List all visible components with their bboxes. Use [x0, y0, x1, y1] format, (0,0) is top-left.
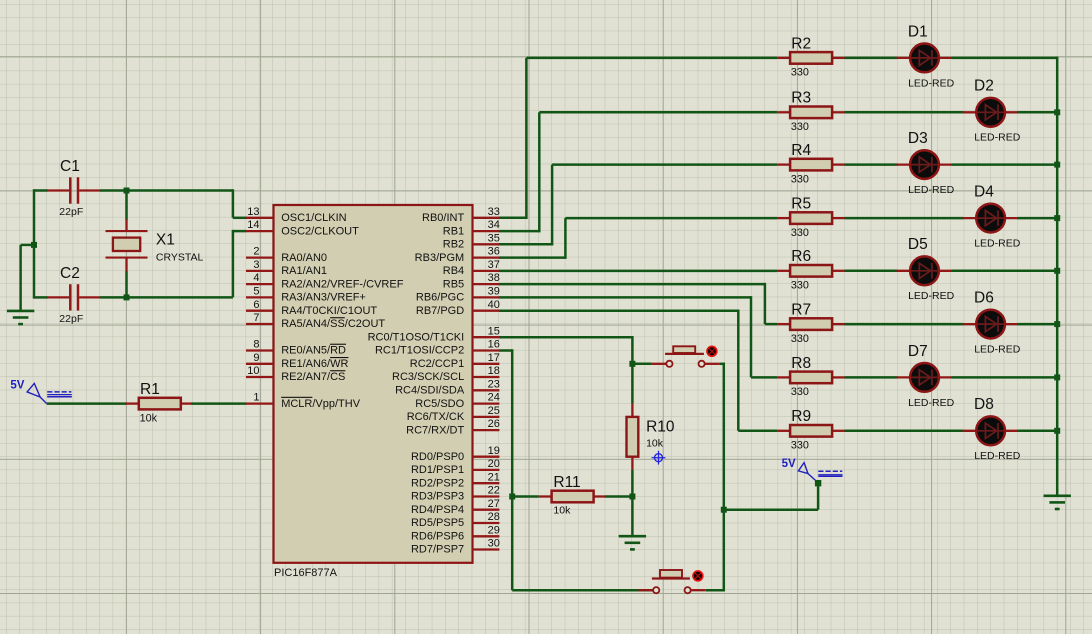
crystal X1: [106, 219, 204, 271]
pin 16 stub: [473, 349, 500, 351]
svg-text:5V: 5V: [10, 379, 24, 391]
svg-text:LED-RED: LED-RED: [974, 450, 1021, 462]
svg-text:RC3/SCK/SCL: RC3/SCK/SCL: [392, 371, 464, 383]
svg-text:RE1/AN6/WR: RE1/AN6/WR: [281, 358, 348, 370]
svg-text:LED-RED: LED-RED: [908, 290, 955, 302]
pin 28 stub: [473, 522, 500, 524]
svg-text:27: 27: [488, 498, 500, 510]
wire 5V right to button branch: [724, 483, 818, 510]
wire 5V to R1: [47, 402, 127, 405]
svg-text:10k: 10k: [646, 437, 664, 449]
svg-text:RA2/AN2/VREF-/CVREF: RA2/AN2/VREF-/CVREF: [281, 278, 404, 290]
junction R10-R11: [629, 494, 635, 500]
svg-text:LED-RED: LED-RED: [908, 184, 955, 196]
pin 38 stub: [473, 283, 500, 285]
pin 1 stub: [246, 402, 274, 404]
wire R2 to D1: [845, 57, 898, 60]
pin 20 stub: [473, 469, 500, 471]
svg-text:D6: D6: [974, 290, 994, 307]
svg-text:R4: R4: [791, 142, 811, 159]
resistor R7: [777, 302, 845, 345]
resistor R9: [777, 408, 845, 451]
svg-text:RE0/AN5/RD: RE0/AN5/RD: [281, 345, 346, 357]
ground (right rail): [1044, 496, 1071, 509]
svg-text:RB3/PGM: RB3/PGM: [415, 252, 465, 264]
pin 25 stub: [473, 416, 500, 418]
resistor R2: [777, 35, 845, 78]
svg-text:RA5/AN4/SS/C2OUT: RA5/AN4/SS/C2OUT: [281, 318, 385, 330]
push button S1: [652, 346, 720, 367]
svg-text:1: 1: [253, 392, 259, 404]
push button S2: [638, 570, 705, 593]
svg-text:C1: C1: [60, 158, 80, 175]
svg-text:10k: 10k: [140, 412, 158, 424]
svg-text:RB4: RB4: [443, 265, 464, 277]
pin 29 stub: [473, 535, 500, 537]
svg-text:4: 4: [253, 272, 259, 284]
svg-text:8: 8: [253, 339, 259, 351]
svg-text:330: 330: [791, 121, 809, 133]
resistor R1: [126, 381, 194, 424]
svg-text:RB7/PGD: RB7/PGD: [416, 305, 464, 317]
pin 6 stub: [246, 310, 274, 312]
pin 5 stub: [246, 296, 274, 298]
svg-text:16: 16: [488, 339, 500, 351]
svg-text:18: 18: [488, 365, 500, 377]
wire RB0 to R2: [499, 58, 777, 219]
junction rail row 3: [1054, 162, 1060, 168]
svg-text:330: 330: [791, 333, 809, 345]
junction rail row 2: [1054, 109, 1060, 115]
wire R4 to D3: [845, 163, 898, 166]
svg-text:RC2/CCP1: RC2/CCP1: [410, 358, 464, 370]
junction 5V branch: [721, 507, 727, 513]
svg-text:D3: D3: [908, 130, 928, 147]
svg-text:17: 17: [488, 352, 500, 364]
svg-text:330: 330: [791, 386, 809, 398]
svg-text:R7: R7: [791, 302, 811, 319]
svg-text:39: 39: [488, 286, 500, 298]
svg-text:40: 40: [488, 299, 500, 311]
microcontroller U1 label: [274, 567, 338, 579]
svg-text:D8: D8: [974, 396, 994, 413]
pin 39 stub: [473, 296, 500, 298]
svg-text:5: 5: [253, 286, 259, 298]
svg-text:R6: R6: [791, 248, 811, 265]
svg-text:RC4/SDI/SDA: RC4/SDI/SDA: [395, 385, 465, 397]
svg-text:X1: X1: [156, 231, 175, 248]
svg-text:RA3/AN3/VREF+: RA3/AN3/VREF+: [281, 292, 366, 304]
svg-text:RB1: RB1: [443, 225, 464, 237]
wire S2 to right vertical: [706, 589, 725, 592]
svg-text:330: 330: [791, 67, 809, 79]
svg-text:25: 25: [488, 405, 500, 417]
junction left vertical: [31, 242, 37, 248]
wire RC1 down: [499, 349, 512, 590]
svg-text:330: 330: [791, 227, 809, 239]
svg-text:7: 7: [253, 312, 259, 324]
svg-text:33: 33: [488, 206, 500, 218]
resistor R5: [777, 196, 845, 239]
svg-text:36: 36: [488, 246, 500, 258]
pin 30 stub: [473, 548, 500, 550]
svg-text:C2: C2: [60, 265, 80, 282]
svg-text:29: 29: [488, 524, 500, 536]
svg-text:OSC1/CLKIN: OSC1/CLKIN: [281, 212, 346, 224]
svg-text:D5: D5: [908, 236, 928, 253]
pin 3 stub: [246, 270, 274, 272]
pin 33 stub: [473, 217, 500, 219]
svg-text:RD7/PSP7: RD7/PSP7: [411, 544, 464, 556]
wire crystal top: [125, 191, 128, 220]
LED D7: [897, 343, 955, 409]
wire ground branch: [21, 245, 34, 311]
wire R10 to ground: [631, 470, 634, 536]
wire OSC2 net (C2 bottom rail): [34, 230, 247, 298]
wire D4 to rail: [1018, 217, 1058, 220]
svg-text:RA1/AN1: RA1/AN1: [281, 265, 327, 277]
svg-text:RA4/T0CKI/C1OUT: RA4/T0CKI/C1OUT: [281, 305, 377, 317]
wire RB6 to R8: [499, 296, 777, 377]
wire D8 to rail: [1018, 430, 1058, 433]
pin 36 stub: [473, 256, 500, 258]
svg-text:R3: R3: [791, 90, 811, 107]
pin 9 stub: [246, 363, 274, 365]
svg-text:D7: D7: [908, 343, 928, 360]
pin 35 stub: [473, 243, 500, 245]
svg-text:RA0/AN0: RA0/AN0: [281, 252, 327, 264]
svg-text:R10: R10: [646, 419, 675, 436]
svg-text:LED-RED: LED-RED: [974, 238, 1021, 250]
svg-text:14: 14: [247, 219, 259, 231]
pin 22 stub: [473, 495, 500, 497]
LED D5: [897, 236, 955, 302]
svg-text:22pF: 22pF: [59, 313, 83, 325]
capacitor C1: [47, 158, 100, 218]
resistor R4: [777, 142, 845, 185]
svg-text:2: 2: [253, 246, 259, 258]
junction rail row 8: [1054, 428, 1060, 434]
resistor R11: [514, 474, 630, 517]
pin 15 stub: [473, 336, 500, 338]
svg-text:D4: D4: [974, 184, 994, 201]
svg-text:24: 24: [488, 392, 500, 404]
pin 40 stub: [473, 310, 500, 312]
wire OSC1 net (C1 top rail): [34, 189, 247, 218]
svg-text:26: 26: [488, 418, 500, 430]
svg-text:19: 19: [488, 445, 500, 457]
wire R1 to MCLR: [191, 402, 246, 405]
wire RB7 to R9: [499, 309, 777, 430]
pin 21 stub: [473, 482, 500, 484]
wire left vertical (C1-C2): [33, 189, 36, 298]
wire D6 to rail: [1018, 323, 1058, 326]
wire R9 to D8: [845, 430, 964, 433]
wire R3 to D2: [845, 111, 964, 114]
svg-text:RD1/PSP1: RD1/PSP1: [411, 464, 464, 476]
svg-text:R1: R1: [140, 381, 160, 398]
svg-text:RC5/SDO: RC5/SDO: [415, 398, 464, 410]
svg-text:RD0/PSP0: RD0/PSP0: [411, 451, 464, 463]
pin 10 stub: [246, 376, 274, 378]
svg-text:15: 15: [488, 325, 500, 337]
svg-text:21: 21: [488, 471, 500, 483]
wire D5 to rail: [952, 270, 1058, 273]
svg-text:5V: 5V: [782, 458, 796, 470]
LED D3: [897, 130, 955, 196]
svg-text:35: 35: [488, 232, 500, 244]
svg-text:RB2: RB2: [443, 239, 464, 251]
junction button1 branch: [629, 361, 635, 367]
junction rail row 7: [1054, 374, 1060, 380]
svg-text:RC0/T1OSO/T1CKI: RC0/T1OSO/T1CKI: [368, 331, 465, 343]
wire RB2 to R4: [499, 165, 777, 246]
svg-text:RE2/AN7/CS: RE2/AN7/CS: [281, 371, 345, 383]
svg-text:RB5: RB5: [443, 278, 464, 290]
svg-text:330: 330: [791, 440, 809, 452]
wire R8 to D7: [845, 376, 898, 379]
pin 2 stub: [246, 256, 274, 258]
microcontroller U1 body: [274, 205, 473, 563]
power terminal 5V (right): [782, 458, 843, 486]
LED D6: [963, 290, 1021, 356]
power terminal 5V (left): [10, 379, 71, 403]
wire D1 to rail: [952, 57, 1058, 60]
junction rail row 4: [1054, 215, 1060, 221]
wire R7 to D6: [845, 323, 964, 326]
wire D7 to rail: [952, 376, 1058, 379]
svg-text:RB6/PGC: RB6/PGC: [416, 292, 464, 304]
svg-text:CRYSTAL: CRYSTAL: [156, 252, 204, 264]
svg-text:D1: D1: [908, 23, 928, 40]
wire D3 to rail: [952, 163, 1058, 166]
svg-text:R9: R9: [791, 408, 811, 425]
pin 19 stub: [473, 456, 500, 458]
LED D2: [963, 78, 1021, 144]
svg-text:LED-RED: LED-RED: [974, 344, 1021, 356]
svg-text:10k: 10k: [553, 505, 571, 517]
svg-text:MCLR/Vpp/THV: MCLR/Vpp/THV: [281, 398, 361, 410]
svg-text:RB0/INT: RB0/INT: [422, 212, 464, 224]
svg-text:34: 34: [488, 219, 500, 231]
junction rail row 6: [1054, 321, 1060, 327]
pin 37 stub: [473, 270, 500, 272]
svg-text:RD6/PSP6: RD6/PSP6: [411, 531, 464, 543]
ground (middle): [619, 536, 646, 549]
pin 4 stub: [246, 283, 274, 285]
wire RB5 to R7: [499, 283, 777, 324]
wire crystal bottom: [125, 271, 128, 297]
svg-text:PIC16F877A: PIC16F877A: [274, 567, 338, 579]
origin marker: [652, 451, 666, 465]
resistor R6: [777, 248, 845, 291]
wire RC0 to R10 top: [499, 336, 632, 404]
svg-text:R8: R8: [791, 355, 811, 372]
svg-text:330: 330: [791, 280, 809, 292]
svg-text:RD5/PSP5: RD5/PSP5: [411, 517, 464, 529]
svg-text:3: 3: [253, 259, 259, 271]
svg-text:37: 37: [488, 259, 500, 271]
wire RB3 to R5: [499, 218, 777, 259]
wire RB4 to R6: [499, 270, 777, 273]
svg-text:LED-RED: LED-RED: [908, 77, 955, 89]
svg-text:20: 20: [488, 458, 500, 470]
microcontroller U1 pins: [246, 206, 500, 556]
svg-text:D2: D2: [974, 78, 994, 95]
pin 34 stub: [473, 230, 500, 232]
svg-text:30: 30: [488, 538, 500, 550]
pin 18 stub: [473, 376, 500, 378]
capacitor C2: [47, 265, 100, 325]
LED D1: [897, 23, 955, 89]
svg-text:R5: R5: [791, 196, 811, 213]
LED D8: [963, 396, 1021, 462]
wire D2 to rail: [1018, 111, 1058, 114]
svg-text:38: 38: [488, 272, 500, 284]
svg-text:RC6/TX/CK: RC6/TX/CK: [407, 411, 465, 423]
svg-text:R2: R2: [791, 35, 811, 52]
svg-text:13: 13: [247, 206, 259, 218]
wire R6 to D5: [845, 270, 898, 273]
pin 23 stub: [473, 389, 500, 391]
wire bottom to button S2: [512, 589, 652, 592]
pin 26 stub: [473, 429, 500, 431]
wire S1 to right vertical: [720, 363, 724, 591]
junction crystal bottom: [124, 294, 130, 300]
pin 13 stub: [246, 217, 274, 219]
svg-text:RD4/PSP4: RD4/PSP4: [411, 504, 464, 516]
pin 7 stub: [246, 323, 274, 325]
svg-text:OSC2/CLKOUT: OSC2/CLKOUT: [281, 225, 359, 237]
resistor R10: [627, 404, 675, 470]
junction crystal top: [124, 188, 130, 194]
wire right rail: [1056, 57, 1059, 496]
svg-text:R11: R11: [553, 474, 580, 491]
svg-text:LED-RED: LED-RED: [974, 132, 1021, 144]
pin 17 stub: [473, 363, 500, 365]
svg-text:22: 22: [488, 485, 500, 497]
junction rail row 5: [1054, 268, 1060, 274]
pin 24 stub: [473, 402, 500, 404]
resistor R3: [777, 90, 845, 133]
svg-text:28: 28: [488, 511, 500, 523]
svg-text:RD3/PSP3: RD3/PSP3: [411, 491, 464, 503]
junction R11 left: [509, 494, 515, 500]
pin 8 stub: [246, 349, 274, 351]
wire junction to button S1: [634, 363, 651, 366]
pin 27 stub: [473, 509, 500, 511]
svg-text:RC7/RX/DT: RC7/RX/DT: [406, 424, 464, 436]
svg-text:23: 23: [488, 378, 500, 390]
svg-text:10: 10: [247, 365, 259, 377]
svg-text:RD2/PSP2: RD2/PSP2: [411, 477, 464, 489]
svg-text:RC1/T1OSI/CCP2: RC1/T1OSI/CCP2: [375, 345, 464, 357]
wire RB1 to R3: [499, 112, 777, 232]
svg-text:9: 9: [253, 352, 259, 364]
ground (left): [7, 311, 34, 324]
svg-text:330: 330: [791, 173, 809, 185]
wire R5 to D4: [845, 217, 964, 220]
svg-text:22pF: 22pF: [59, 206, 83, 218]
resistor R8: [777, 355, 845, 398]
svg-text:6: 6: [253, 299, 259, 311]
LED D4: [963, 184, 1021, 250]
svg-text:LED-RED: LED-RED: [908, 397, 955, 409]
pin 14 stub: [246, 230, 274, 232]
